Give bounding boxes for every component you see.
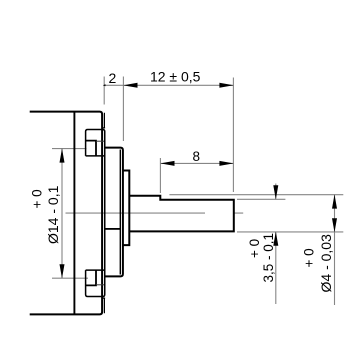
3,5 extension line top (flat surface) bbox=[237, 198, 285, 200]
flange rim tangent line bbox=[119, 150, 121, 275]
bushing bbox=[123, 171, 129, 246]
arrow Ø14 bottom bbox=[60, 264, 65, 278]
svg-text:+ 0: + 0 bbox=[247, 239, 262, 258]
mounting ear edge top bbox=[103, 113, 105, 128]
arrow dim12 right bbox=[219, 83, 233, 88]
flange slot edge bbox=[105, 228, 121, 230]
svg-text:3,5 - 0,1: 3,5 - 0,1 bbox=[261, 233, 276, 283]
svg-text:Ø4 - 0,03: Ø4 - 0,03 bbox=[318, 234, 334, 293]
Ø4 dimension line bbox=[334, 195, 336, 306]
arrow dim12 left bbox=[123, 83, 137, 88]
body housing outline bbox=[30, 112, 102, 315]
svg-text:12 ± 0,5: 12 ± 0,5 bbox=[150, 69, 201, 85]
extension line flat start (dim 8) bbox=[159, 158, 161, 193]
tick at dim 2 origin bbox=[103, 84, 106, 86]
extension line shaft end (dim 12 / 8) bbox=[232, 78, 234, 193]
extension line left of dim 2 bbox=[103, 77, 105, 105]
svg-text:Ø14 - 0,1: Ø14 - 0,1 bbox=[45, 185, 61, 244]
washer top inner edge bbox=[86, 155, 105, 157]
arrow dim8 right bbox=[219, 161, 233, 166]
arrow dim8 left bbox=[160, 161, 174, 166]
body cover seam bbox=[73, 112, 75, 314]
dimension line 8 bbox=[160, 162, 233, 164]
arrow 3,5 bottom (outside pointing up) bbox=[273, 232, 278, 246]
Ø14 extension line top bbox=[52, 148, 87, 150]
mounting ear edge bottom bbox=[103, 298, 105, 313]
arrow Ø4 top (inside pointing up) bbox=[332, 194, 337, 208]
svg-text:2: 2 bbox=[109, 70, 117, 86]
Ø14 extension line bottom bbox=[52, 277, 88, 279]
svg-text:+ 0: + 0 bbox=[302, 248, 317, 267]
washer bottom inner edge bbox=[86, 269, 105, 271]
arrow Ø4 bottom (inside pointing down) bbox=[332, 218, 337, 232]
washer tab thin edge bottom bbox=[96, 284, 104, 286]
washer tab step bottom bbox=[86, 270, 96, 285]
Ø14 dimension line bbox=[61, 149, 63, 279]
shared extension line bottom (3,5 and Ø4) bbox=[237, 231, 343, 233]
dimension line 2 and 12±0,5 bbox=[104, 84, 233, 86]
svg-text:+ 0: + 0 bbox=[30, 189, 45, 208]
arrow 3,5 top (outside pointing down) bbox=[273, 185, 278, 199]
lock washer plate outline bbox=[86, 130, 105, 297]
washer tab thin edge top bbox=[96, 140, 104, 142]
arrow Ø14 top bbox=[60, 148, 65, 162]
3,5 dimension stub below bbox=[275, 232, 277, 304]
washer tab step top bbox=[86, 141, 96, 156]
svg-text:8: 8 bbox=[193, 149, 201, 164]
flange disc outline bbox=[104, 148, 123, 277]
3,5 dimension stub above bbox=[275, 184, 277, 200]
shaft with flat bbox=[129, 196, 234, 232]
extension line flange face (dim 2 / 12) bbox=[122, 77, 124, 142]
Ø4 extension line top bbox=[169, 194, 343, 196]
centerline shaft axis bbox=[66, 212, 244, 214]
